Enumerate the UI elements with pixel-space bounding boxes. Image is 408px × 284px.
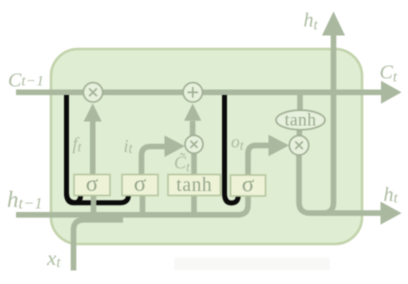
wire: connector from band up into sigma2 <box>140 195 146 216</box>
wire: x_t input line merging into h band <box>74 220 124 271</box>
peephole (black): from C line down, right, up into sigma2 input gate <box>67 95 129 203</box>
svg-text:tanh: tanh <box>285 109 317 129</box>
wire: h band (h_{t-1} line, ends curving up into output sigma) <box>16 196 248 215</box>
wire: f_t arrow from sigma1 up to forget multiply node <box>90 121 96 175</box>
wire: connector from band up into tanh box <box>191 195 197 216</box>
wire: cell state C line <box>16 90 383 96</box>
svg-text:ht: ht <box>384 184 399 206</box>
sigma2 input gate box <box>122 175 158 196</box>
wire: branch up from h line to top h_t output crossing C line <box>323 34 334 213</box>
arrowhead h_t top output <box>322 12 345 36</box>
wire: candidate line from tanh box up into middle multiply <box>191 150 197 175</box>
arrowhead C_t output <box>381 81 402 104</box>
svg-text:ht: ht <box>304 10 319 34</box>
svg-text:tanh: tanh <box>176 175 212 196</box>
svg-text:Ct: Ct <box>380 62 398 86</box>
wire: i_t line from sigma2 curving right with arrow into middle multiply <box>142 147 166 176</box>
plus node circle <box>183 83 202 102</box>
svg-text:ht−1: ht−1 <box>7 187 43 212</box>
wire: drop from C line down to tanh ellipse <box>297 94 303 112</box>
tanh layer box <box>168 175 221 196</box>
svg-text:σ: σ <box>134 171 147 196</box>
wire: tanh ellipse down to output multiply <box>297 128 303 138</box>
svg-text:σ: σ <box>242 172 255 197</box>
output multiply node circle <box>289 136 308 155</box>
svg-text:σ: σ <box>86 171 99 196</box>
cell body rounded rectangle <box>51 49 362 244</box>
svg-text:Ct−1: Ct−1 <box>8 70 44 92</box>
sigma4 output gate box <box>231 175 266 196</box>
peephole (black): from C line after plus, down and U-turn up into sigma4 output gate <box>225 95 239 203</box>
wire: o_t line from sigma4 curving right with arrow into output multiply <box>248 145 269 175</box>
wire: connector from band up into sigma1 <box>91 195 97 216</box>
wire: output multiply down then right to h_t exit <box>299 154 382 213</box>
arrowhead h_t right output <box>381 202 402 225</box>
peephole (black): tight U branch up into sigma1 forget gate <box>67 187 81 203</box>
wire: arrow from middle multiply up into plus node <box>190 121 196 137</box>
sigma1 forget gate box <box>74 175 110 196</box>
faint artifact band below cell <box>174 258 330 271</box>
svg-text:xt: xt <box>46 246 61 271</box>
forget multiply node circle <box>83 83 102 102</box>
middle multiply node circle <box>185 135 203 153</box>
tanh ellipse <box>276 110 325 130</box>
